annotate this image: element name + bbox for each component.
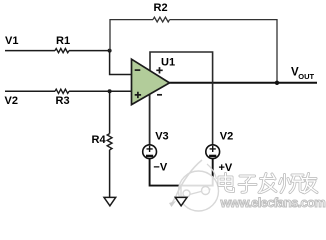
op-amp V- power marker [157, 94, 162, 96]
resistor R4 [107, 134, 112, 150]
svg-text:V2: V2 [220, 131, 233, 143]
wire -V supply pin [149, 92, 151, 145]
svg-text:V2: V2 [5, 95, 18, 107]
wire output [170, 82, 318, 84]
node B junction dot [108, 89, 112, 93]
watermark logo arrowhead [169, 201, 176, 207]
resistor R2 [153, 17, 170, 22]
svg-text:V3: V3 [155, 130, 168, 142]
svg-text:R3: R3 [56, 95, 70, 107]
svg-text:−V: −V [153, 161, 167, 173]
svg-text:V1: V1 [5, 35, 18, 47]
resistor R3 [55, 89, 69, 93]
svg-text:R1: R1 [56, 35, 70, 47]
output junction dot [275, 81, 279, 85]
wire +V supply rail [150, 52, 213, 145]
ground (supply rail) [175, 197, 187, 205]
wire V2 input [5, 90, 132, 92]
wire rail to ground [180, 186, 182, 197]
resistor R1 [55, 49, 69, 53]
svg-text:OUT: OUT [298, 72, 314, 81]
op-amp V+ power marker [156, 67, 162, 73]
svg-text:R2: R2 [154, 2, 168, 14]
svg-text:www.elecfans.com: www.elecfans.com [220, 195, 326, 210]
wire node B to R4 [109, 91, 111, 197]
voltage source V3 (-V) [143, 145, 157, 159]
op-amp non-inverting input marker [135, 92, 141, 98]
wire V1 input [5, 50, 110, 52]
wire V3 bottom to ground rail [150, 159, 213, 186]
op-amp U1 triangle [132, 59, 170, 104]
op-amp inverting input marker [135, 69, 141, 71]
node A junction dot [108, 49, 112, 53]
ground (under R4) [104, 197, 116, 205]
watermark logo [172, 160, 219, 211]
svg-text:R4: R4 [92, 134, 107, 146]
wire R2 feedback loop [110, 20, 277, 83]
svg-text:U1: U1 [161, 57, 175, 69]
voltage source V2 (+V) [206, 145, 220, 159]
wire to inverting input [110, 51, 132, 75]
